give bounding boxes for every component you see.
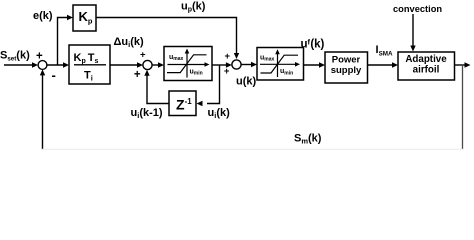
svg-text:e(k): e(k)	[33, 10, 53, 22]
block saturation 2	[257, 48, 304, 81]
wire feedback down right side	[462, 65, 464, 150]
wire Kp output top rail down into junction C	[96, 18, 237, 55]
svg-text:umin: umin	[280, 68, 293, 76]
svg-text:umin: umin	[190, 69, 203, 77]
block adaptive airfoil	[398, 52, 455, 80]
svg-text:u(k): u(k)	[236, 76, 257, 88]
svg-text:airfoil: airfoil	[413, 65, 440, 76]
block saturation 1	[164, 47, 212, 81]
wire junction A to PI block with branch up to Kp	[47, 64, 64, 66]
wire input Sset to summing junction A	[4, 64, 33, 66]
wire delay feedback up into junction B	[147, 75, 169, 104]
wire convection arrow into airfoil	[412, 14, 414, 47]
block Kp	[73, 5, 96, 31]
wire feedback bottom rail	[42, 148, 463, 150]
summing junction B	[143, 60, 152, 69]
wire saturation1 output to junction C with branch down	[212, 64, 227, 66]
svg-text:+: +	[140, 50, 146, 61]
svg-text:up(k): up(k)	[181, 1, 206, 14]
svg-text:uf(k): uf(k)	[301, 38, 325, 51]
svg-text:+: +	[224, 66, 230, 77]
svg-text:ui(k-1): ui(k-1)	[131, 107, 163, 120]
svg-text:umax: umax	[260, 54, 275, 62]
svg-text:umax: umax	[169, 54, 184, 62]
wire PI block to summing junction B	[110, 64, 138, 66]
wire saturation2 to power supply	[304, 64, 321, 66]
svg-text:ui(k): ui(k)	[208, 107, 231, 120]
svg-text:+: +	[225, 51, 231, 62]
wire junction B to saturation block 1	[152, 64, 159, 66]
wire ui(k) branch down and left into delay block	[207, 65, 220, 104]
wire airfoil output with arrow and feedback branch down	[455, 64, 466, 66]
wire power supply to adaptive airfoil	[368, 64, 394, 66]
svg-text:+: +	[134, 69, 141, 81]
svg-text:Power: Power	[332, 55, 361, 66]
block power supply	[325, 52, 368, 83]
block delay Z-1	[169, 91, 203, 116]
block PI integral gain KpTs/Ti	[69, 45, 110, 84]
svg-text:-: -	[52, 68, 56, 83]
svg-text:convection: convection	[393, 4, 442, 14]
svg-text:Sm(k): Sm(k)	[294, 133, 322, 146]
svg-text:Δui(k): Δui(k)	[114, 36, 145, 49]
wire junction C to saturation block 2	[241, 64, 252, 66]
svg-text:ISMA: ISMA	[376, 44, 394, 58]
wire branch up to Kp block	[58, 18, 69, 65]
svg-text:supply: supply	[331, 65, 362, 76]
summing junction A	[38, 61, 47, 70]
svg-text:Sset(k): Sset(k)	[0, 50, 30, 63]
summing junction C	[232, 60, 241, 69]
wire feedback Sm up into junction A	[42, 74, 44, 150]
svg-text:Adaptive: Adaptive	[405, 54, 447, 65]
